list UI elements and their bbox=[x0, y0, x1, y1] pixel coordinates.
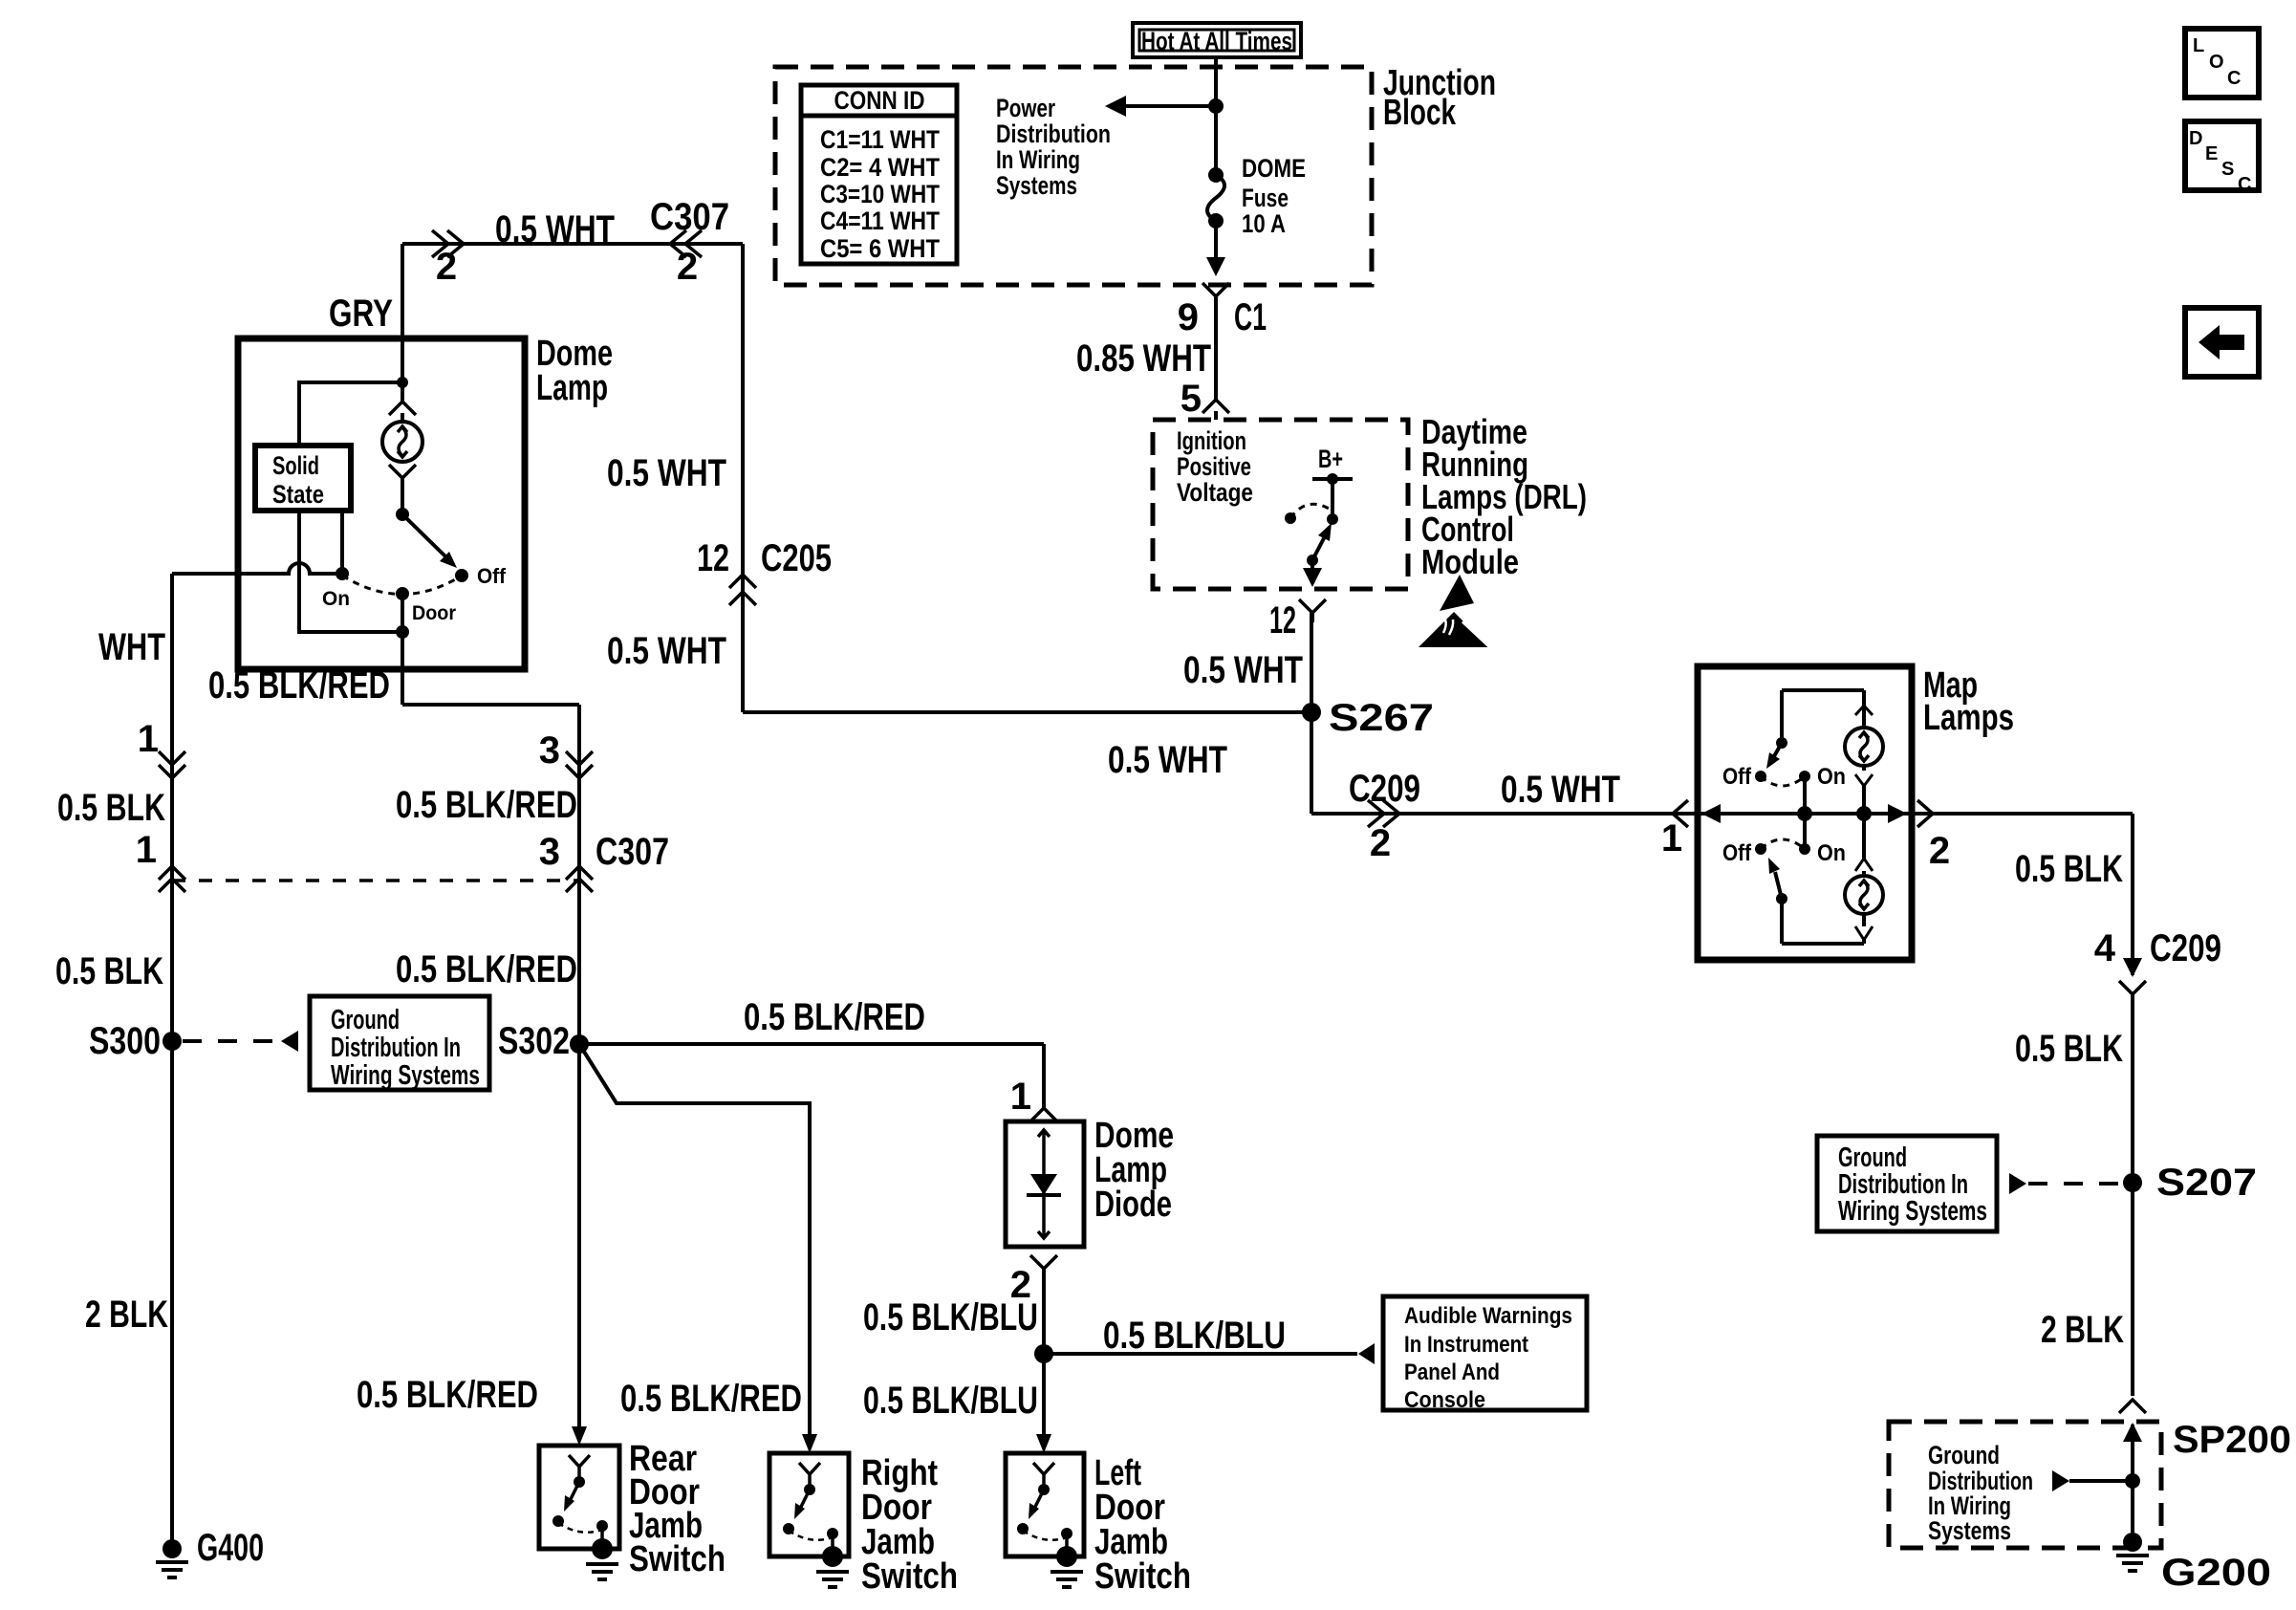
svg-text:Console: Console bbox=[1404, 1387, 1485, 1413]
svg-text:In Instrument: In Instrument bbox=[1404, 1332, 1528, 1358]
svg-text:0.5 BLK/RED: 0.5 BLK/RED bbox=[357, 1374, 538, 1416]
svg-text:Block: Block bbox=[1383, 93, 1457, 133]
svg-text:0.5 BLK/RED: 0.5 BLK/RED bbox=[396, 948, 577, 990]
svg-text:3: 3 bbox=[539, 729, 560, 772]
svg-text:Lamps: Lamps bbox=[1923, 698, 2014, 738]
svg-text:1: 1 bbox=[138, 718, 159, 760]
svg-text:0.5 BLK/BLU: 0.5 BLK/BLU bbox=[1103, 1315, 1286, 1357]
svg-text:1: 1 bbox=[136, 829, 157, 871]
svg-text:Door: Door bbox=[412, 602, 456, 624]
svg-text:S300: S300 bbox=[89, 1020, 161, 1062]
svg-text:C205: C205 bbox=[761, 537, 832, 579]
svg-text:Power: Power bbox=[996, 94, 1055, 122]
svg-text:C307: C307 bbox=[596, 831, 669, 873]
svg-text:C209: C209 bbox=[2150, 927, 2221, 969]
svg-text:Ignition: Ignition bbox=[1177, 426, 1246, 455]
svg-text:1: 1 bbox=[1010, 1076, 1031, 1118]
svg-text:0.5 WHT: 0.5 WHT bbox=[1501, 769, 1620, 811]
svg-text:Off: Off bbox=[1722, 764, 1752, 790]
svg-text:In Wiring: In Wiring bbox=[996, 145, 1080, 174]
svg-text:0.5 WHT: 0.5 WHT bbox=[1108, 739, 1227, 781]
svg-text:1: 1 bbox=[1661, 817, 1682, 859]
svg-text:0.5 BLK/BLU: 0.5 BLK/BLU bbox=[863, 1380, 1038, 1422]
svg-text:C2= 4 WHT: C2= 4 WHT bbox=[820, 153, 940, 182]
svg-text:S267: S267 bbox=[1329, 697, 1434, 739]
svg-text:0.5 BLK/RED: 0.5 BLK/RED bbox=[208, 664, 390, 707]
svg-text:S207: S207 bbox=[2156, 1162, 2257, 1204]
svg-text:0.5 BLK: 0.5 BLK bbox=[55, 950, 163, 992]
svg-text:Off: Off bbox=[1722, 840, 1752, 866]
svg-text:CONN ID: CONN ID bbox=[834, 86, 925, 115]
svg-text:GRY: GRY bbox=[329, 293, 393, 335]
svg-text:S: S bbox=[2221, 159, 2234, 180]
svg-text:On: On bbox=[1817, 764, 1846, 790]
svg-text:Solid: Solid bbox=[272, 451, 319, 480]
svg-text:L: L bbox=[2193, 35, 2204, 56]
svg-text:State: State bbox=[272, 480, 324, 509]
svg-text:0.5 WHT: 0.5 WHT bbox=[607, 630, 726, 672]
svg-text:2: 2 bbox=[1370, 822, 1391, 864]
svg-text:10 A: 10 A bbox=[1242, 209, 1286, 238]
svg-text:12: 12 bbox=[697, 537, 729, 579]
svg-text:0.5 WHT: 0.5 WHT bbox=[495, 208, 615, 250]
svg-text:Wiring Systems: Wiring Systems bbox=[1838, 1196, 1987, 1227]
svg-text:C1: C1 bbox=[1234, 296, 1267, 338]
svg-text:Positive: Positive bbox=[1177, 452, 1251, 481]
svg-text:O: O bbox=[2209, 52, 2224, 73]
svg-text:C: C bbox=[2227, 68, 2241, 89]
svg-text:Switch: Switch bbox=[861, 1556, 958, 1597]
svg-text:Switch: Switch bbox=[629, 1539, 726, 1579]
svg-text:0.5 BLK/BLU: 0.5 BLK/BLU bbox=[863, 1296, 1038, 1338]
svg-text:C3=10 WHT: C3=10 WHT bbox=[820, 180, 940, 208]
svg-text:0.5 BLK/RED: 0.5 BLK/RED bbox=[396, 784, 577, 826]
svg-text:0.85 WHT: 0.85 WHT bbox=[1076, 337, 1211, 380]
svg-text:Panel And: Panel And bbox=[1404, 1360, 1500, 1385]
svg-text:B+: B+ bbox=[1318, 445, 1343, 473]
svg-text:C4=11 WHT: C4=11 WHT bbox=[820, 207, 940, 235]
svg-text:2: 2 bbox=[1929, 830, 1950, 872]
svg-text:Distribution In: Distribution In bbox=[331, 1033, 461, 1063]
svg-text:S302: S302 bbox=[498, 1020, 570, 1062]
svg-text:5: 5 bbox=[1180, 378, 1202, 420]
svg-text:0.5 WHT: 0.5 WHT bbox=[1183, 649, 1303, 691]
svg-text:9: 9 bbox=[1178, 296, 1199, 338]
svg-text:Lamp: Lamp bbox=[536, 368, 608, 408]
svg-text:Systems: Systems bbox=[1928, 1516, 2011, 1545]
svg-text:D: D bbox=[2189, 128, 2202, 149]
svg-text:Switch: Switch bbox=[1094, 1556, 1191, 1597]
svg-text:Systems: Systems bbox=[996, 171, 1077, 200]
svg-text:On: On bbox=[322, 588, 350, 610]
svg-text:Ground: Ground bbox=[331, 1005, 400, 1035]
svg-text:On: On bbox=[1817, 840, 1846, 866]
svg-text:Diode: Diode bbox=[1094, 1185, 1172, 1225]
svg-text:C: C bbox=[2238, 174, 2251, 195]
svg-text:C307: C307 bbox=[650, 196, 729, 238]
svg-text:C1=11 WHT: C1=11 WHT bbox=[820, 125, 940, 154]
svg-text:G200: G200 bbox=[2161, 1552, 2271, 1594]
svg-text:Hot At All Times: Hot At All Times bbox=[1141, 27, 1292, 55]
svg-text:12: 12 bbox=[1269, 599, 1296, 642]
svg-text:0.5 BLK: 0.5 BLK bbox=[57, 787, 165, 829]
svg-text:0.5 BLK/RED: 0.5 BLK/RED bbox=[620, 1378, 802, 1420]
svg-text:Wiring Systems: Wiring Systems bbox=[331, 1060, 480, 1091]
svg-text:E: E bbox=[2205, 143, 2218, 164]
svg-text:4: 4 bbox=[2094, 927, 2116, 969]
svg-text:Distribution: Distribution bbox=[996, 120, 1111, 148]
svg-text:G400: G400 bbox=[197, 1527, 264, 1569]
svg-text:0.5 WHT: 0.5 WHT bbox=[607, 452, 726, 494]
svg-text:Off: Off bbox=[477, 564, 507, 588]
svg-text:SP200: SP200 bbox=[2173, 1419, 2291, 1461]
svg-text:2 BLK: 2 BLK bbox=[2041, 1309, 2124, 1351]
svg-text:Audible Warnings: Audible Warnings bbox=[1404, 1303, 1572, 1329]
svg-text:3: 3 bbox=[539, 831, 560, 873]
svg-text:WHT: WHT bbox=[98, 626, 165, 668]
svg-text:Ground: Ground bbox=[1928, 1441, 2000, 1469]
svg-text:0.5 BLK/RED: 0.5 BLK/RED bbox=[744, 996, 925, 1038]
svg-text:DOME: DOME bbox=[1242, 154, 1306, 183]
svg-text:Module: Module bbox=[1421, 542, 1519, 581]
svg-text:C5= 6 WHT: C5= 6 WHT bbox=[820, 234, 940, 263]
svg-text:Fuse: Fuse bbox=[1242, 184, 1289, 212]
svg-text:0.5 BLK: 0.5 BLK bbox=[2015, 848, 2123, 890]
svg-text:Voltage: Voltage bbox=[1177, 478, 1253, 507]
svg-text:2 BLK: 2 BLK bbox=[85, 1294, 168, 1336]
svg-text:0.5 BLK: 0.5 BLK bbox=[2015, 1028, 2123, 1070]
